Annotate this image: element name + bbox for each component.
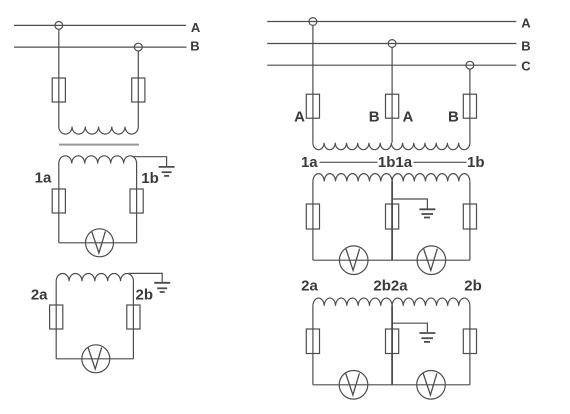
- wire: series link 1a-1b (row 1 left): [320, 161, 378, 163]
- wire: 2a left leg: [55, 281, 57, 359]
- wire: sec1 middle leg (right circuit): [391, 181, 393, 260]
- wire: sec2 middle leg (right circuit): [391, 306, 393, 385]
- ground (right sec 2): [419, 333, 435, 342]
- wire: bottom conductor (right sec 1): [313, 259, 470, 261]
- fuse (1a leg): [52, 189, 65, 213]
- bus line A (left circuit): [14, 24, 186, 26]
- svg-text:2a: 2a: [301, 278, 318, 295]
- voltmeter V (right sec 2, right): [417, 371, 446, 400]
- svg-text:2b: 2b: [464, 278, 482, 295]
- voltmeter V (left sec 2): [82, 345, 110, 373]
- wire: series link 1a-1b (row 1 right): [414, 161, 467, 163]
- svg-text:1a: 1a: [35, 170, 52, 187]
- wire: sec1 right leg (right circuit): [469, 181, 471, 260]
- node: tap circle on bus B (left): [134, 43, 142, 51]
- svg-text:1b: 1b: [141, 170, 159, 187]
- fuse (1b leg): [130, 189, 143, 213]
- fuse F1 (left, phase A): [52, 78, 65, 102]
- svg-text:1b: 1b: [467, 154, 485, 171]
- bus line C (right circuit): [267, 64, 516, 66]
- wire: bottom conductor through voltmeter (left sec 2): [56, 358, 133, 360]
- svg-text:B: B: [448, 109, 459, 126]
- node: tap circle on bus B (right): [388, 40, 396, 48]
- fuse (2b leg): [127, 305, 140, 329]
- wire: sec1 left leg (right circuit): [312, 181, 314, 260]
- voltmeter V (right sec 2, left): [339, 371, 368, 400]
- svg-text:1a: 1a: [301, 154, 318, 171]
- wire: tap from bus C (right leg 3): [469, 69, 471, 143]
- wire: tap from bus B down to primary winding (left): [137, 51, 139, 127]
- fuse (right, phase A): [306, 94, 319, 118]
- wire: ground tap (left sec 1): [132, 157, 167, 167]
- wire: ground tap (right sec 1): [392, 199, 427, 209]
- svg-text:B: B: [521, 39, 530, 54]
- svg-text:B: B: [190, 39, 199, 54]
- fuse (sec1 middle leg): [386, 204, 399, 229]
- secondary winding 1 (left, 1a-1b): [59, 156, 137, 164]
- fuse (sec1 left leg): [306, 204, 319, 229]
- bus line B (right circuit): [267, 43, 516, 45]
- svg-text:C: C: [521, 59, 531, 74]
- node: tap circle on bus A (right): [309, 18, 317, 26]
- wire: tap from bus B (right leg 2): [391, 47, 393, 142]
- fuse (sec1 right leg): [463, 204, 476, 229]
- bus line A (right circuit): [267, 21, 516, 23]
- svg-text:1b1a: 1b1a: [378, 154, 413, 171]
- svg-text:B: B: [369, 109, 380, 126]
- primary winding (right transformer, V-V): [313, 143, 470, 150]
- ground (left sec 1): [159, 167, 175, 176]
- primary winding (left transformer): [59, 127, 139, 135]
- fuse (sec2 right leg): [463, 329, 476, 354]
- svg-text:A: A: [521, 16, 531, 31]
- svg-text:2b2a: 2b2a: [373, 278, 408, 295]
- secondary winding 2a-2b (right, first half): [313, 298, 392, 306]
- fuse F2 (left, phase B): [132, 78, 145, 102]
- fuse (right, phase B): [386, 94, 399, 118]
- voltmeter V (right sec 1, left): [339, 246, 368, 275]
- wire: 2b right leg: [132, 281, 134, 359]
- wire: ground tap (right sec 2): [392, 323, 427, 332]
- fuse (sec2 left leg): [306, 329, 319, 354]
- transformer core (left): [59, 144, 139, 146]
- wire: tap from bus A (right leg 1): [312, 25, 314, 142]
- secondary winding 2 (left, 2a-2b): [56, 273, 133, 281]
- secondary winding 1a-1b (right, first half): [313, 174, 392, 182]
- wire: 1a left leg: [58, 164, 60, 243]
- wire: bottom conductor (right sec 2): [313, 384, 470, 386]
- ground (left sec 2): [154, 283, 170, 292]
- svg-text:2a: 2a: [31, 286, 48, 303]
- fuse (2a leg): [50, 305, 63, 329]
- svg-text:2b: 2b: [136, 286, 154, 303]
- svg-text:A: A: [402, 109, 413, 126]
- wire: tap from bus A down to primary winding (left): [58, 29, 60, 126]
- secondary winding 2a-2b (right, second half): [392, 298, 470, 306]
- wire: ground tap (left sec 2): [129, 273, 163, 282]
- wire: 1b right leg: [136, 164, 138, 243]
- voltmeter V (left sec 1): [86, 229, 114, 257]
- fuse (right, phase C): [463, 94, 476, 118]
- bus line B (left circuit): [14, 46, 187, 48]
- wire: sec2 left leg (right circuit): [312, 306, 314, 385]
- node: tap circle on bus A (left): [55, 22, 63, 30]
- wire: bottom conductor through voltmeter (left sec 1): [59, 242, 137, 244]
- fuse (sec2 middle leg): [386, 329, 399, 354]
- wire: sec2 right leg (right circuit): [469, 306, 471, 385]
- secondary winding 1a-1b (right, second half): [392, 174, 470, 182]
- node: tap circle on bus C (right): [466, 61, 474, 69]
- ground (right sec 1): [419, 209, 435, 217]
- svg-text:A: A: [294, 109, 305, 126]
- svg-text:A: A: [191, 20, 201, 35]
- voltmeter V (right sec 1, right): [417, 246, 446, 275]
